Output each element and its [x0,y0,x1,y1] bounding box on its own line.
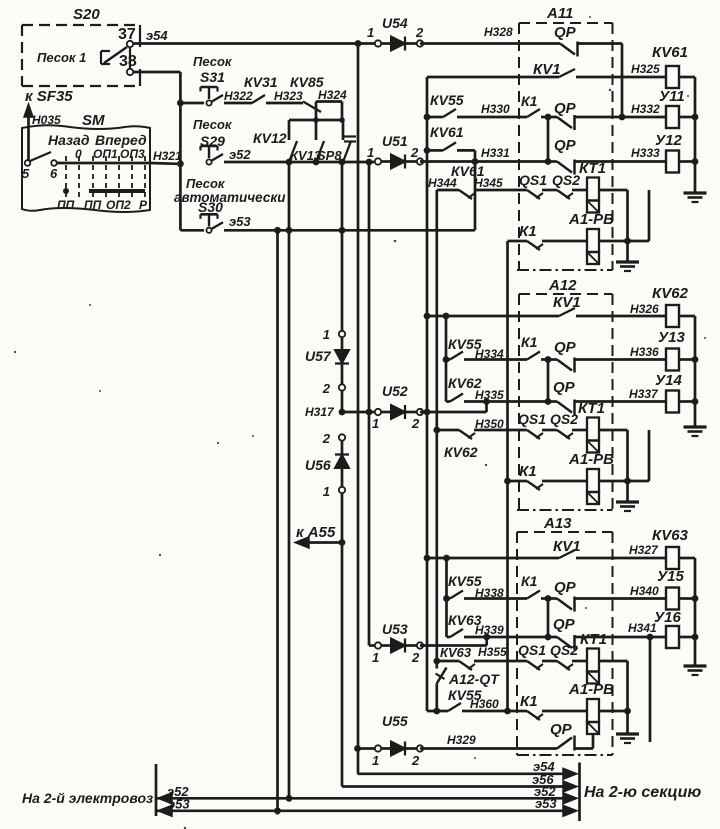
svg-text:1: 1 [367,145,374,160]
svg-text:У12: У12 [655,132,683,149]
svg-text:КV61: КV61 [430,124,464,140]
svg-text:2: 2 [322,431,331,446]
svg-text:Н328: Н328 [484,25,513,39]
svg-text:U56: U56 [305,457,331,473]
svg-text:ОП2: ОП2 [106,198,131,212]
svg-text:КV1: КV1 [553,294,581,311]
svg-text:На 2-й электровоз: На 2-й электровоз [22,790,153,806]
svg-text:КТ1: КТ1 [578,400,605,417]
svg-text:2: 2 [411,753,420,768]
svg-text:QP: QP [553,616,576,633]
svg-text:Н331: Н331 [481,146,510,160]
svg-text:U57: U57 [305,348,332,364]
svg-text:U55: U55 [382,713,408,729]
svg-text:Песок: Песок [186,176,226,191]
svg-text:Песок: Песок [193,117,233,132]
svg-text:2: 2 [415,25,424,40]
svg-text:КV63: КV63 [440,645,472,660]
svg-text:ПП: ПП [84,198,102,212]
svg-text:Н332: Н332 [631,102,660,116]
svg-text:QP: QP [550,721,573,738]
svg-text:Песок 1: Песок 1 [37,50,86,65]
svg-text:Н326: Н326 [630,302,659,316]
svg-text:2: 2 [410,145,419,160]
svg-text:У13: У13 [658,329,686,346]
svg-text:КV12: КV12 [253,130,287,146]
svg-text:Н324: Н324 [318,88,347,102]
svg-text:КV63: КV63 [652,527,689,544]
svg-text:ПП: ПП [57,198,75,212]
svg-text:Н327: Н327 [629,543,659,557]
svg-text:U52: U52 [382,383,408,399]
svg-text:к SF35: к SF35 [25,88,73,105]
svg-text:6: 6 [50,166,58,181]
svg-text:U54: U54 [382,15,408,31]
svg-text:QP: QP [554,24,577,41]
svg-text:37: 37 [118,26,136,43]
svg-text:Н325: Н325 [631,62,660,76]
svg-text:5: 5 [22,166,30,181]
svg-text:А11: А11 [546,5,573,22]
svg-text:КV1: КV1 [553,538,581,555]
svg-text:э53: э53 [168,797,190,812]
svg-text:К1: К1 [519,463,537,480]
svg-text:Назад: Назад [48,132,90,148]
svg-text:Н323: Н323 [274,89,303,103]
svg-text:38: 38 [119,53,137,70]
svg-text:QP: QP [554,339,577,356]
svg-text:1: 1 [367,25,374,40]
svg-text:А1-РВ: А1-РВ [568,451,614,468]
svg-text:S31: S31 [200,69,225,85]
svg-text:QP: QP [554,579,577,596]
svg-text:1: 1 [323,327,330,342]
svg-text:КТ1: КТ1 [579,160,606,177]
svg-text:Р: Р [139,198,148,212]
svg-text:QP: QP [554,100,577,117]
svg-text:1: 1 [323,484,330,499]
svg-text:А12: А12 [548,277,577,294]
svg-text:Н336: Н336 [630,345,659,359]
svg-text:э54: э54 [146,28,168,43]
svg-text:Н337: Н337 [629,387,659,401]
svg-text:э53: э53 [229,214,251,229]
svg-text:Н360: Н360 [470,697,499,711]
svg-text:Н355: Н355 [478,645,507,659]
svg-text:КТ1: КТ1 [580,631,607,648]
svg-text:2: 2 [322,381,331,396]
svg-text:Н335: Н335 [475,388,504,402]
svg-text:А12-QT: А12-QT [448,671,500,687]
svg-text:Песок: Песок [193,54,233,69]
svg-text:А13: А13 [543,515,572,532]
svg-text:КV31: КV31 [244,74,278,90]
svg-text:У15: У15 [657,568,685,585]
svg-text:э52: э52 [229,147,251,162]
svg-text:К1: К1 [519,223,537,240]
svg-text:QS2: QS2 [550,642,578,658]
svg-text:QS1: QS1 [519,172,547,188]
svg-text:к А55: к А55 [296,524,336,541]
svg-text:К1: К1 [521,334,538,350]
svg-text:Н341: Н341 [628,621,657,635]
svg-text:А1-РВ: А1-РВ [568,681,614,698]
svg-text:КV61: КV61 [652,44,688,61]
svg-text:QS2: QS2 [552,172,580,188]
svg-text:Н345: Н345 [474,176,503,190]
svg-text:КV1: КV1 [533,61,561,78]
svg-text:2: 2 [411,650,420,665]
svg-text:У16: У16 [654,609,682,626]
svg-text:QS1: QS1 [518,411,546,427]
svg-text:U51: U51 [382,133,408,149]
svg-text:КV62: КV62 [444,444,478,460]
svg-text:Н340: Н340 [630,584,659,598]
svg-text:SM: SM [82,112,105,129]
svg-text:Вперед: Вперед [95,132,147,148]
svg-text:QS2: QS2 [550,411,578,427]
svg-text:Н322: Н322 [224,89,253,103]
svg-text:Н334: Н334 [475,347,504,361]
svg-text:Н330: Н330 [481,102,510,116]
svg-text:1: 1 [372,650,379,665]
svg-text:Н338: Н338 [475,586,504,600]
svg-text:На 2-ю секцию: На 2-ю секцию [584,784,701,801]
svg-text:Н344: Н344 [428,176,457,190]
svg-text:Н339: Н339 [475,623,504,637]
svg-text:У11: У11 [659,88,685,105]
svg-text:К1: К1 [521,93,538,109]
svg-text:э53: э53 [535,796,557,811]
svg-text:QP: QP [554,137,577,154]
svg-text:2: 2 [411,416,420,431]
svg-text:Н329: Н329 [447,733,476,747]
svg-text:U53: U53 [382,621,408,637]
svg-text:S30: S30 [198,199,223,215]
svg-text:1: 1 [372,416,379,431]
svg-text:А1-РВ: А1-РВ [568,211,614,228]
svg-text:Н321: Н321 [153,149,182,163]
svg-text:КV55: КV55 [430,92,464,108]
svg-text:КV62: КV62 [652,285,689,302]
svg-text:Н317: Н317 [305,405,335,419]
svg-text:QS1: QS1 [518,642,546,658]
svg-text:К1: К1 [520,693,538,710]
svg-text:1: 1 [372,753,379,768]
svg-text:S20: S20 [73,6,100,23]
svg-text:К1: К1 [521,573,538,589]
svg-text:автоматически: автоматически [174,190,286,205]
svg-text:QP: QP [553,379,576,396]
svg-text:У14: У14 [655,372,683,389]
